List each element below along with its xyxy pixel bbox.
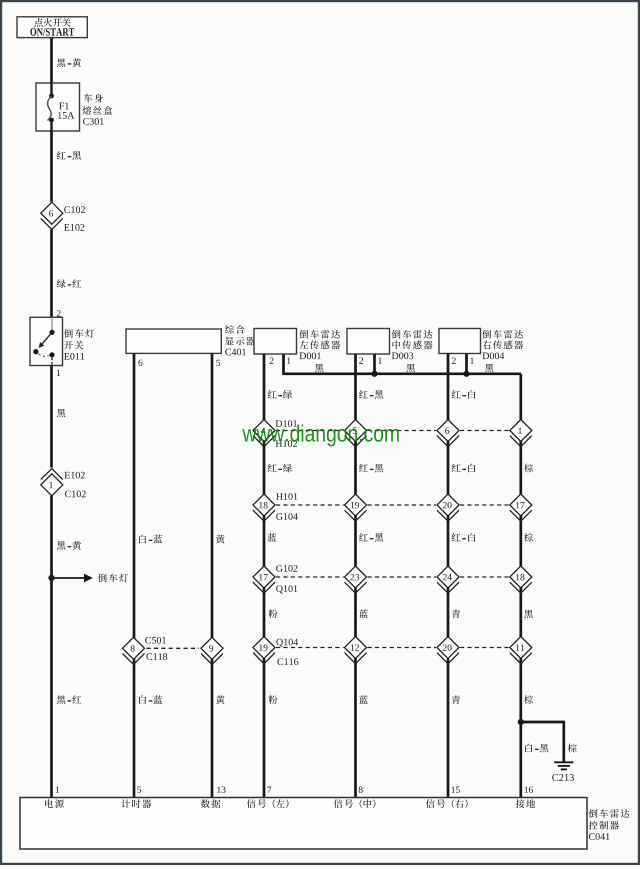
middle sensor box 倒车雷达中传感器 D003	[347, 329, 432, 360]
pin 2 of reverse light switch	[57, 310, 61, 316]
connector row Q104/C116: pin 11	[510, 637, 532, 664]
combination display box 综合显示器 C401	[126, 325, 255, 355]
connector row D101/H102: pin 6	[437, 420, 459, 447]
bus junction at D004 pin 1	[463, 371, 469, 377]
bus label 黑 (middle)	[406, 364, 415, 373]
reversing radar controller box C041	[20, 798, 587, 850]
dashed link row 4	[276, 647, 509, 649]
pin 1 of reverse light switch	[57, 370, 60, 376]
inline connector pin 8 C501/C118	[123, 637, 168, 665]
wire label 白-黑 to controller pin 16	[525, 744, 548, 753]
D001 pin 2 and pin 1 labels	[270, 357, 291, 363]
ignition switch box 点火开关 ON/START	[17, 17, 87, 38]
inline connector pin 1 E102/C102	[41, 469, 86, 498]
signal wire right sensor to controller pin 15	[447, 354, 450, 798]
wire label 白-蓝 lower	[139, 695, 162, 704]
reverse light switch E011 box and contacts	[30, 317, 63, 365]
wire 黑 from switch to connector E102	[52, 366, 66, 468]
arrow branch 倒车灯 (to reversing lamp)	[52, 574, 128, 583]
connector row Q104/C116: pin 12	[345, 637, 367, 664]
inline connector pin 9 (data)	[201, 637, 223, 664]
display pin 5 and wire 黄 (data)	[212, 353, 225, 797]
junction to reversing lamp	[48, 575, 54, 581]
wire labels row 红-绿 红-黑 红-白 (above connectors)	[268, 390, 476, 399]
fuse box label 车身熔丝盒 C301	[82, 94, 112, 125]
wire labels 粉 蓝 青 棕 (bottom)	[268, 695, 533, 704]
connector row H101/G104: pin 18	[253, 493, 298, 521]
connector row G102/Q101: pin 18	[510, 566, 532, 593]
switch label 倒车灯 开关 E011	[64, 329, 94, 360]
controller label 倒车雷达控制器 C041	[589, 809, 630, 840]
inline connector pin 6 C102/E102	[41, 202, 85, 231]
connector row D101/H102: pin 1	[510, 420, 532, 447]
wire 黑-黄 from ignition switch to fuse box	[52, 38, 82, 83]
fuse F1 15A in body fuse box C301	[36, 83, 80, 131]
signal wire middle sensor to controller pin 8	[354, 354, 357, 798]
connector row H101/G104: pin 19	[345, 494, 367, 521]
dashed link row 3	[276, 576, 509, 578]
connector row G102/Q101: pin 23	[345, 566, 367, 593]
wire 黑-黄 below connector E102	[52, 496, 82, 798]
watermark www.diangon.com	[242, 424, 398, 446]
ground branch junction	[518, 719, 524, 725]
connector row H101/G104: pin 17	[510, 494, 532, 521]
wire label 黑-红 to controller pin 1	[57, 695, 81, 704]
ground symbol C213	[552, 762, 574, 781]
wire labels 蓝 红-黑 红-白 棕 (row 3)	[268, 533, 533, 542]
controller pin 1 电源	[45, 787, 64, 808]
display pin 6 and wire 白-蓝 (timer)	[134, 353, 162, 797]
bus label 黑 (left)	[315, 364, 324, 373]
bus label 黑 (right)	[485, 364, 494, 373]
wire label 黄 lower	[216, 695, 225, 704]
signal wire left sensor to controller pin 7	[263, 354, 266, 798]
dashed link row 2	[276, 504, 509, 506]
controller pin 15 信号（右）	[426, 787, 468, 808]
right sensor box 倒车雷达右传感器 D004	[439, 329, 523, 360]
wire 绿-红 from connector to reverse light switch	[52, 230, 82, 318]
black bus wire 黑 from sensor pins 1 to ground column	[284, 354, 521, 374]
ground column wire to controller pin 16	[519, 374, 522, 798]
controller pin 8 信号（中）	[334, 787, 376, 808]
dashed connector link C501-C118 row	[147, 647, 200, 649]
dashed link row 1	[276, 430, 509, 432]
connector row G102/Q101: pin 24	[437, 566, 459, 593]
controller pin 16 接地	[516, 787, 536, 808]
connector row Q104/C116: pin 20	[437, 637, 459, 664]
left sensor box 倒车雷达左传感器 D001	[254, 329, 340, 360]
bus junction at D003 pin 1	[371, 371, 377, 377]
wire labels 红-绿 红-黑 红-白 棕 (row 2)	[268, 464, 533, 473]
connector row G102/Q101: pin 17	[253, 565, 297, 593]
connector row D101/H102: pin 4	[253, 420, 297, 447]
D003 pin 2 and pin 1 labels	[359, 357, 382, 363]
controller pin 13 数据	[201, 787, 226, 808]
wire labels 粉 蓝 青 黑 (row 4)	[268, 609, 532, 618]
controller pin 7 信号（左）	[247, 787, 289, 808]
ground branch wire 棕 to C213	[521, 722, 577, 762]
connector row D101/H102: pin 5	[345, 420, 367, 447]
connector row H101/G104: pin 20	[437, 494, 459, 521]
wire 红-黑 from fuse box to connector C102	[52, 131, 82, 202]
connector row Q104/C116: pin 19	[253, 637, 298, 666]
D004 pin 2 and pin 1 labels	[452, 357, 474, 363]
controller pin 5 计时器	[121, 787, 151, 808]
